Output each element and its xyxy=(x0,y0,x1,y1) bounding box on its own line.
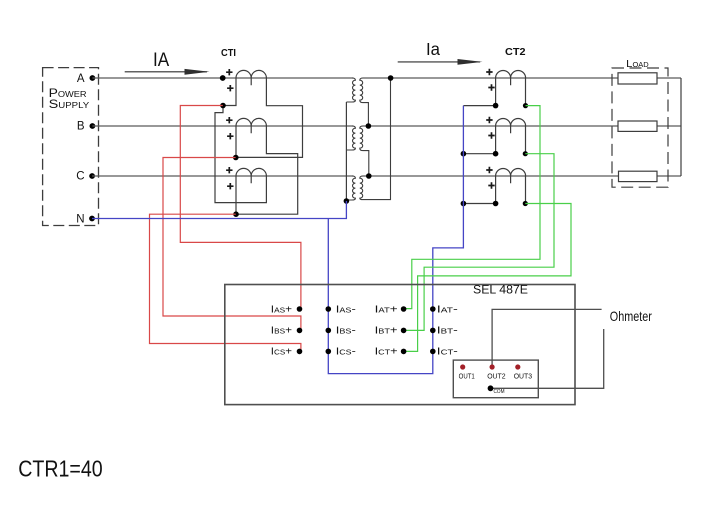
svg-text:Iat+: Iat+ xyxy=(375,304,398,315)
node A terminal xyxy=(90,75,96,81)
svg-text:Ias+: Ias+ xyxy=(271,304,292,315)
arrow IA xyxy=(125,71,207,73)
node IBT- xyxy=(430,328,436,334)
resistor load C xyxy=(619,171,658,181)
svg-text:OUT3: OUT3 xyxy=(514,374,533,381)
CT2 phase B secondary legs xyxy=(463,126,525,154)
svg-text:Ibs-: Ibs- xyxy=(336,326,356,337)
node CT2-A left terminal xyxy=(493,103,499,109)
svg-text:B: B xyxy=(77,121,85,133)
CT2 phase B plus marks xyxy=(486,117,495,139)
node CT1-C S1 xyxy=(233,211,239,217)
node IBS+ xyxy=(297,328,303,334)
wire ohmeter lead from COM xyxy=(491,329,604,388)
wire CT1-A S1 step to left rail xyxy=(215,106,266,203)
node ICS+ xyxy=(297,349,303,355)
node CT2-B rail junction xyxy=(461,151,467,157)
wire red CT1-C to ICS+ xyxy=(150,214,301,350)
wire green CT2-C to ICT+ xyxy=(404,204,571,352)
node CT2-B left terminal xyxy=(493,151,499,157)
wire red CT1-B to IBS+ xyxy=(163,158,301,330)
wire red CT1-A to IAS+ xyxy=(180,106,301,309)
node OUT3 xyxy=(515,364,520,369)
CT1 phase B secondary leads xyxy=(236,126,298,214)
svg-text:Ict+: Ict+ xyxy=(375,347,398,358)
CT1 phase A secondary leads xyxy=(223,78,303,157)
wire phase C xyxy=(92,175,681,177)
node T1 secondary B-C junction xyxy=(366,173,372,179)
wire phase A xyxy=(92,77,681,79)
svg-text:CT2: CT2 xyxy=(505,46,526,58)
CT1 phase A winding xyxy=(236,70,266,85)
CT1 phase C winding xyxy=(236,168,266,183)
node CT1-B S1 xyxy=(233,155,239,161)
svg-text:Iat-: Iat- xyxy=(437,304,458,315)
node CT1-A S1 xyxy=(220,103,226,109)
wire blue neutral xyxy=(92,201,346,219)
svg-text:Ibt-: Ibt- xyxy=(437,326,458,337)
resistor load B xyxy=(618,121,657,131)
node N terminal xyxy=(89,216,95,222)
node T1 secondary C-A junction xyxy=(388,75,394,81)
node IAS+ xyxy=(297,306,303,312)
CT1 phase A plus marks xyxy=(226,69,233,91)
CT2 phase C winding xyxy=(496,169,526,184)
node IBS- xyxy=(326,328,332,334)
svg-text:Load: Load xyxy=(626,58,649,70)
node ICT+ xyxy=(401,349,407,355)
CT1 phase B plus marks xyxy=(226,117,233,139)
resistor load A xyxy=(618,73,657,84)
svg-text:C: C xyxy=(76,171,84,183)
transformer T1 secondary winding B xyxy=(360,126,369,176)
CT1 phase C plus marks xyxy=(226,167,233,189)
transformer T1 secondary winding A xyxy=(360,78,369,126)
wire green CT2-A to IAT+ xyxy=(404,106,540,309)
transformer T1 primary winding C xyxy=(346,176,355,200)
node IBT+ xyxy=(401,328,407,334)
node CT2-C rail junction xyxy=(461,201,467,207)
svg-text:Ics-: Ics- xyxy=(336,347,356,358)
wire ohmeter lead from OUT2 xyxy=(492,309,601,367)
load dashed box xyxy=(612,68,668,187)
node ICS- xyxy=(326,349,332,355)
svg-text:OUT2: OUT2 xyxy=(487,374,506,381)
svg-text:Ics+: Ics+ xyxy=(271,347,292,358)
node CT2-C left terminal xyxy=(493,201,499,207)
transformer T1 primary winding B xyxy=(346,126,355,150)
node line A at CT1 xyxy=(220,75,226,81)
node COM xyxy=(488,385,494,391)
node T1 secondary A-B junction xyxy=(366,123,372,129)
svg-text:A: A xyxy=(77,73,85,85)
svg-text:COM: COM xyxy=(494,389,505,395)
node T1 neutral xyxy=(344,198,350,204)
node CT2-B right terminal xyxy=(523,151,528,156)
wire load common rail xyxy=(680,78,682,176)
svg-text:Ibs+: Ibs+ xyxy=(271,326,292,337)
transformer T1 secondary winding C xyxy=(360,78,391,200)
node C terminal xyxy=(89,173,95,179)
svg-text:CTR1=40: CTR1=40 xyxy=(18,455,103,481)
svg-text:Supply: Supply xyxy=(49,97,90,111)
svg-text:Ict-: Ict- xyxy=(437,347,458,358)
CT2 phase A winding xyxy=(496,71,526,86)
node OUT1 xyxy=(460,364,465,369)
svg-text:N: N xyxy=(76,214,84,226)
svg-text:Ibt+: Ibt+ xyxy=(375,326,398,337)
svg-text:Ia: Ia xyxy=(426,39,440,59)
node CT2-A right terminal xyxy=(523,103,528,108)
node IAS- xyxy=(326,306,332,312)
CT1 phase C secondary leads xyxy=(235,176,237,214)
wire green CT2-B to IBT+ xyxy=(404,154,554,331)
node OUT2 xyxy=(490,364,495,369)
transformer T1 primary winding A xyxy=(346,78,355,102)
node B terminal xyxy=(90,123,96,129)
svg-text:IA: IA xyxy=(153,49,169,71)
CT2 phase A plus marks xyxy=(486,69,495,91)
node CT2-C right terminal xyxy=(523,201,528,206)
arrow Ia xyxy=(398,61,480,63)
CT2 phase C plus marks xyxy=(486,167,495,189)
svg-text:Ias-: Ias- xyxy=(336,304,356,315)
svg-text:OUT1: OUT1 xyxy=(459,374,475,381)
node IAT- xyxy=(430,306,436,312)
wire phase B xyxy=(92,125,681,127)
wire T1 primary neutral rail xyxy=(345,102,347,201)
CT2 phase B winding xyxy=(496,119,526,134)
node ICT- xyxy=(430,349,436,355)
output contacts box xyxy=(453,360,538,398)
svg-text:Ohmeter: Ohmeter xyxy=(610,308,652,324)
wire blue relay common loop xyxy=(328,106,463,374)
CT2 phase A secondary legs xyxy=(463,78,525,106)
power supply dashed box xyxy=(43,68,99,226)
svg-text:CTI: CTI xyxy=(221,48,236,59)
relay SEL 487E box xyxy=(225,285,575,405)
svg-text:SEL 487E: SEL 487E xyxy=(473,282,528,296)
node IAT+ xyxy=(401,306,407,312)
CT2 phase C secondary legs xyxy=(463,176,525,204)
CT1 phase B winding xyxy=(236,118,266,133)
